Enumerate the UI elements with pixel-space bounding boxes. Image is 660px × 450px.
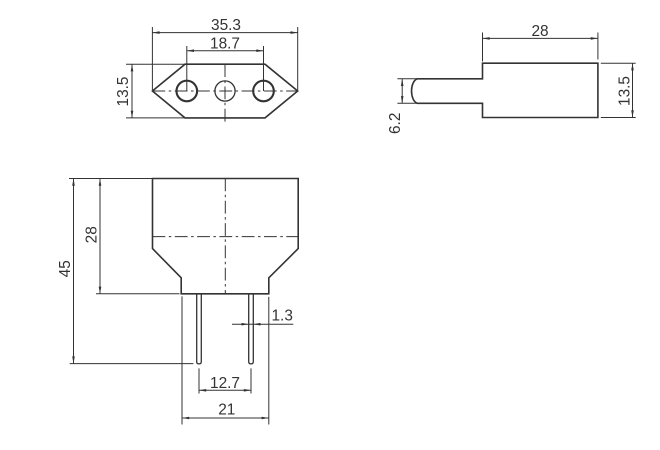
top view: horizontal centerline (dash-dot) [152,90,297,92]
front view: vertical centerline (dash-dot) [224,179,226,294]
dim 18.7: right extension line (through right hole center) [263,46,265,91]
svg-text:18.7: 18.7 [210,36,240,53]
dim 12.7: right extension line [250,368,252,393]
front view: horizontal centerline (dash-dot) [153,236,299,238]
svg-text:28: 28 [84,226,101,243]
dim 45: top extension line [69,178,153,180]
dim 45: dimension line [73,179,75,364]
dim 13.5 (side view): top arrowhead [631,63,634,70]
front view: left pin outline [197,294,202,364]
dim 18.7: dimension line [187,50,264,52]
dim 21: right extension line [268,297,270,425]
dim 21: dimension line [182,417,269,419]
dim 12.7: left arrowhead [199,389,206,392]
dim 13.5 (side view): top extension line [601,62,636,64]
dim 1.3: right arrowhead (pointing left at pin) [253,323,260,326]
dim 45: bottom arrowhead [72,356,75,363]
dim 18.7: left extension line (through left hole center) [186,46,188,91]
dim 12.7: left extension line [198,368,200,393]
dim 35.3: left extension line [151,27,153,90]
dim 18.7: right arrowhead [256,49,263,52]
front view: right pin outline [249,294,254,364]
dim 6.2: bottom arrowhead [401,96,404,103]
dim 28 (side view): dimension line [483,37,598,39]
dim 1.3: left arrowhead (pointing right at pin) [242,323,249,326]
svg-text:1.3: 1.3 [271,308,292,325]
dim 28 (front view): bottom arrowhead [99,287,102,294]
dim 13.5 (side view): bottom extension line [601,117,636,119]
dim 13.5 (top view): bottom arrowhead [131,111,134,118]
dim 28 (side view): right arrowhead [591,37,598,40]
dim 6.2: top arrowhead [401,79,404,86]
dim 13.5 (top view): dimension line [131,64,133,118]
dim 21: right arrowhead [262,417,269,420]
dim 18.7: left arrowhead [187,49,194,52]
side view: body outline with pin sleeve [412,63,598,117]
dim 13.5 (side view): bottom arrowhead [631,110,634,117]
dim 12.7: dimension line [199,389,251,391]
dim 45: top arrowhead [72,179,75,186]
svg-text:13.5: 13.5 [617,76,634,106]
dim 28 (front view): dimension line [99,179,101,294]
dim 21: left extension line [181,296,183,424]
dim 28 (front view): top arrowhead [99,179,102,186]
dim 28 (side view): right extension line [597,33,599,60]
top view: plug face hexagon outline [152,64,297,118]
dim 35.3: dimension line [152,32,297,34]
svg-text:35.3: 35.3 [211,17,241,34]
dim 6.2: top extension line [397,78,417,80]
dim 45: bottom extension line [70,363,194,365]
dim 28 (side view): left extension line [482,33,484,62]
dim 12.7: right arrowhead [244,389,251,392]
top view: vertical centerline (dash-dot) [224,64,226,123]
dim 6.2: bottom extension line [397,102,417,104]
dim 28 (side view): left arrowhead [483,37,490,40]
top view: right pin hole circle [253,81,274,102]
dim 1.3: leader line across right pin [232,323,293,325]
svg-text:21: 21 [218,401,235,418]
dim 13.5 (top view): top arrowhead [131,64,134,71]
svg-text:28: 28 [531,23,548,40]
dim 28 (front view): bottom extension line [96,293,180,295]
svg-text:13.5: 13.5 [115,77,132,107]
dim 13.5 (top view): bottom extension line [126,117,185,119]
front view: plug body outline [153,179,299,294]
top view: middle hole circle [215,81,235,101]
dim 35.3: left arrowhead [152,31,159,34]
dim 35.3: right extension line [297,27,299,90]
dim 35.3: right arrowhead [291,31,298,34]
dim 13.5 (side view): dimension line [632,63,634,117]
dim 21: left arrowhead [182,417,189,420]
svg-text:6.2: 6.2 [387,113,404,134]
dim 6.2: dimension line [401,79,403,104]
dim 13.5 (top view): top extension line [126,63,185,65]
svg-text:12.7: 12.7 [210,375,240,392]
top view: left pin hole circle [177,81,198,102]
svg-text:45: 45 [57,260,74,277]
